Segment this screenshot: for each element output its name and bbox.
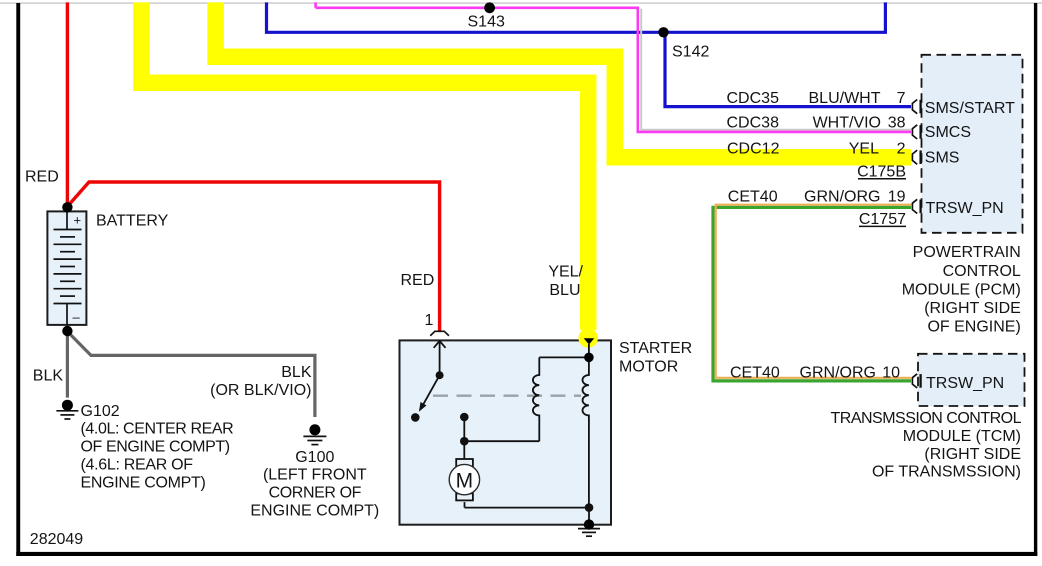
svg-text:OF ENGINE COMPT): OF ENGINE COMPT) bbox=[81, 439, 230, 456]
svg-text:OF TRANSMSSION): OF TRANSMSSION) bbox=[872, 464, 1021, 481]
svg-text:GRN/ORG: GRN/ORG bbox=[804, 189, 880, 206]
svg-text:TRSW_PN: TRSW_PN bbox=[926, 200, 1004, 217]
svg-text:19: 19 bbox=[888, 189, 906, 206]
svg-text:(RIGHT SIDE: (RIGHT SIDE bbox=[924, 300, 1021, 317]
svg-text:WHT/VIO: WHT/VIO bbox=[813, 114, 881, 131]
svg-text:RED: RED bbox=[25, 168, 59, 185]
svg-text:2: 2 bbox=[897, 140, 906, 157]
svg-text:YEL/: YEL/ bbox=[548, 263, 583, 280]
svg-text:CDC35: CDC35 bbox=[727, 90, 780, 107]
svg-text:MOTOR: MOTOR bbox=[619, 359, 678, 376]
svg-text:C175B: C175B bbox=[857, 163, 906, 180]
svg-text:CDC12: CDC12 bbox=[727, 140, 780, 157]
svg-text:CET40: CET40 bbox=[730, 364, 780, 381]
svg-text:STARTER: STARTER bbox=[619, 340, 692, 357]
svg-text:BLK: BLK bbox=[281, 364, 312, 381]
svg-text:1: 1 bbox=[425, 312, 434, 329]
svg-text:(RIGHT SIDE: (RIGHT SIDE bbox=[924, 446, 1021, 463]
svg-text:S143: S143 bbox=[468, 14, 505, 31]
svg-text:SMS: SMS bbox=[925, 150, 960, 167]
svg-text:MODULE (PCM): MODULE (PCM) bbox=[902, 282, 1021, 299]
svg-text:SMCS: SMCS bbox=[925, 124, 971, 141]
svg-text:CONTROL: CONTROL bbox=[943, 263, 1021, 280]
svg-text:BLK: BLK bbox=[33, 367, 64, 384]
svg-text:OF ENGINE): OF ENGINE) bbox=[927, 319, 1020, 336]
svg-text:10: 10 bbox=[882, 364, 900, 381]
svg-text:(LEFT FRONT: (LEFT FRONT bbox=[263, 467, 367, 484]
svg-text:GRN/ORG: GRN/ORG bbox=[800, 364, 876, 381]
svg-text:(OR BLK/VIO): (OR BLK/VIO) bbox=[210, 382, 311, 399]
svg-text:ENGINE COMPT): ENGINE COMPT) bbox=[81, 474, 206, 491]
svg-text:(4.6L: REAR OF: (4.6L: REAR OF bbox=[81, 456, 194, 473]
svg-text:CET40: CET40 bbox=[728, 189, 778, 206]
svg-text:282049: 282049 bbox=[30, 531, 83, 548]
svg-text:–: – bbox=[73, 310, 81, 325]
svg-text:C1757: C1757 bbox=[859, 211, 906, 228]
svg-text:BATTERY: BATTERY bbox=[96, 213, 169, 230]
svg-text:S142: S142 bbox=[672, 44, 709, 61]
svg-text:M: M bbox=[456, 469, 474, 492]
svg-text:MODULE (TCM): MODULE (TCM) bbox=[903, 428, 1021, 445]
svg-text:CORNER OF: CORNER OF bbox=[269, 485, 362, 502]
svg-text:38: 38 bbox=[888, 114, 906, 131]
svg-text:TRSW_PN: TRSW_PN bbox=[926, 375, 1004, 392]
svg-text:BLU/WHT: BLU/WHT bbox=[809, 90, 881, 107]
svg-text:G100: G100 bbox=[295, 449, 334, 466]
svg-text:SMS/START: SMS/START bbox=[925, 100, 1015, 117]
svg-text:CDC38: CDC38 bbox=[727, 114, 780, 131]
svg-text:+: + bbox=[74, 213, 82, 228]
svg-text:TRANSMSSION CONTROL: TRANSMSSION CONTROL bbox=[830, 410, 1021, 427]
svg-text:POWERTRAIN: POWERTRAIN bbox=[913, 244, 1021, 261]
svg-text:7: 7 bbox=[897, 90, 906, 107]
svg-text:BLU: BLU bbox=[549, 282, 580, 299]
svg-text:(4.0L: CENTER REAR: (4.0L: CENTER REAR bbox=[81, 421, 234, 438]
svg-text:RED: RED bbox=[401, 272, 435, 289]
svg-text:G102: G102 bbox=[81, 403, 120, 420]
svg-text:ENGINE COMPT): ENGINE COMPT) bbox=[250, 503, 379, 520]
svg-text:YEL: YEL bbox=[849, 140, 879, 157]
